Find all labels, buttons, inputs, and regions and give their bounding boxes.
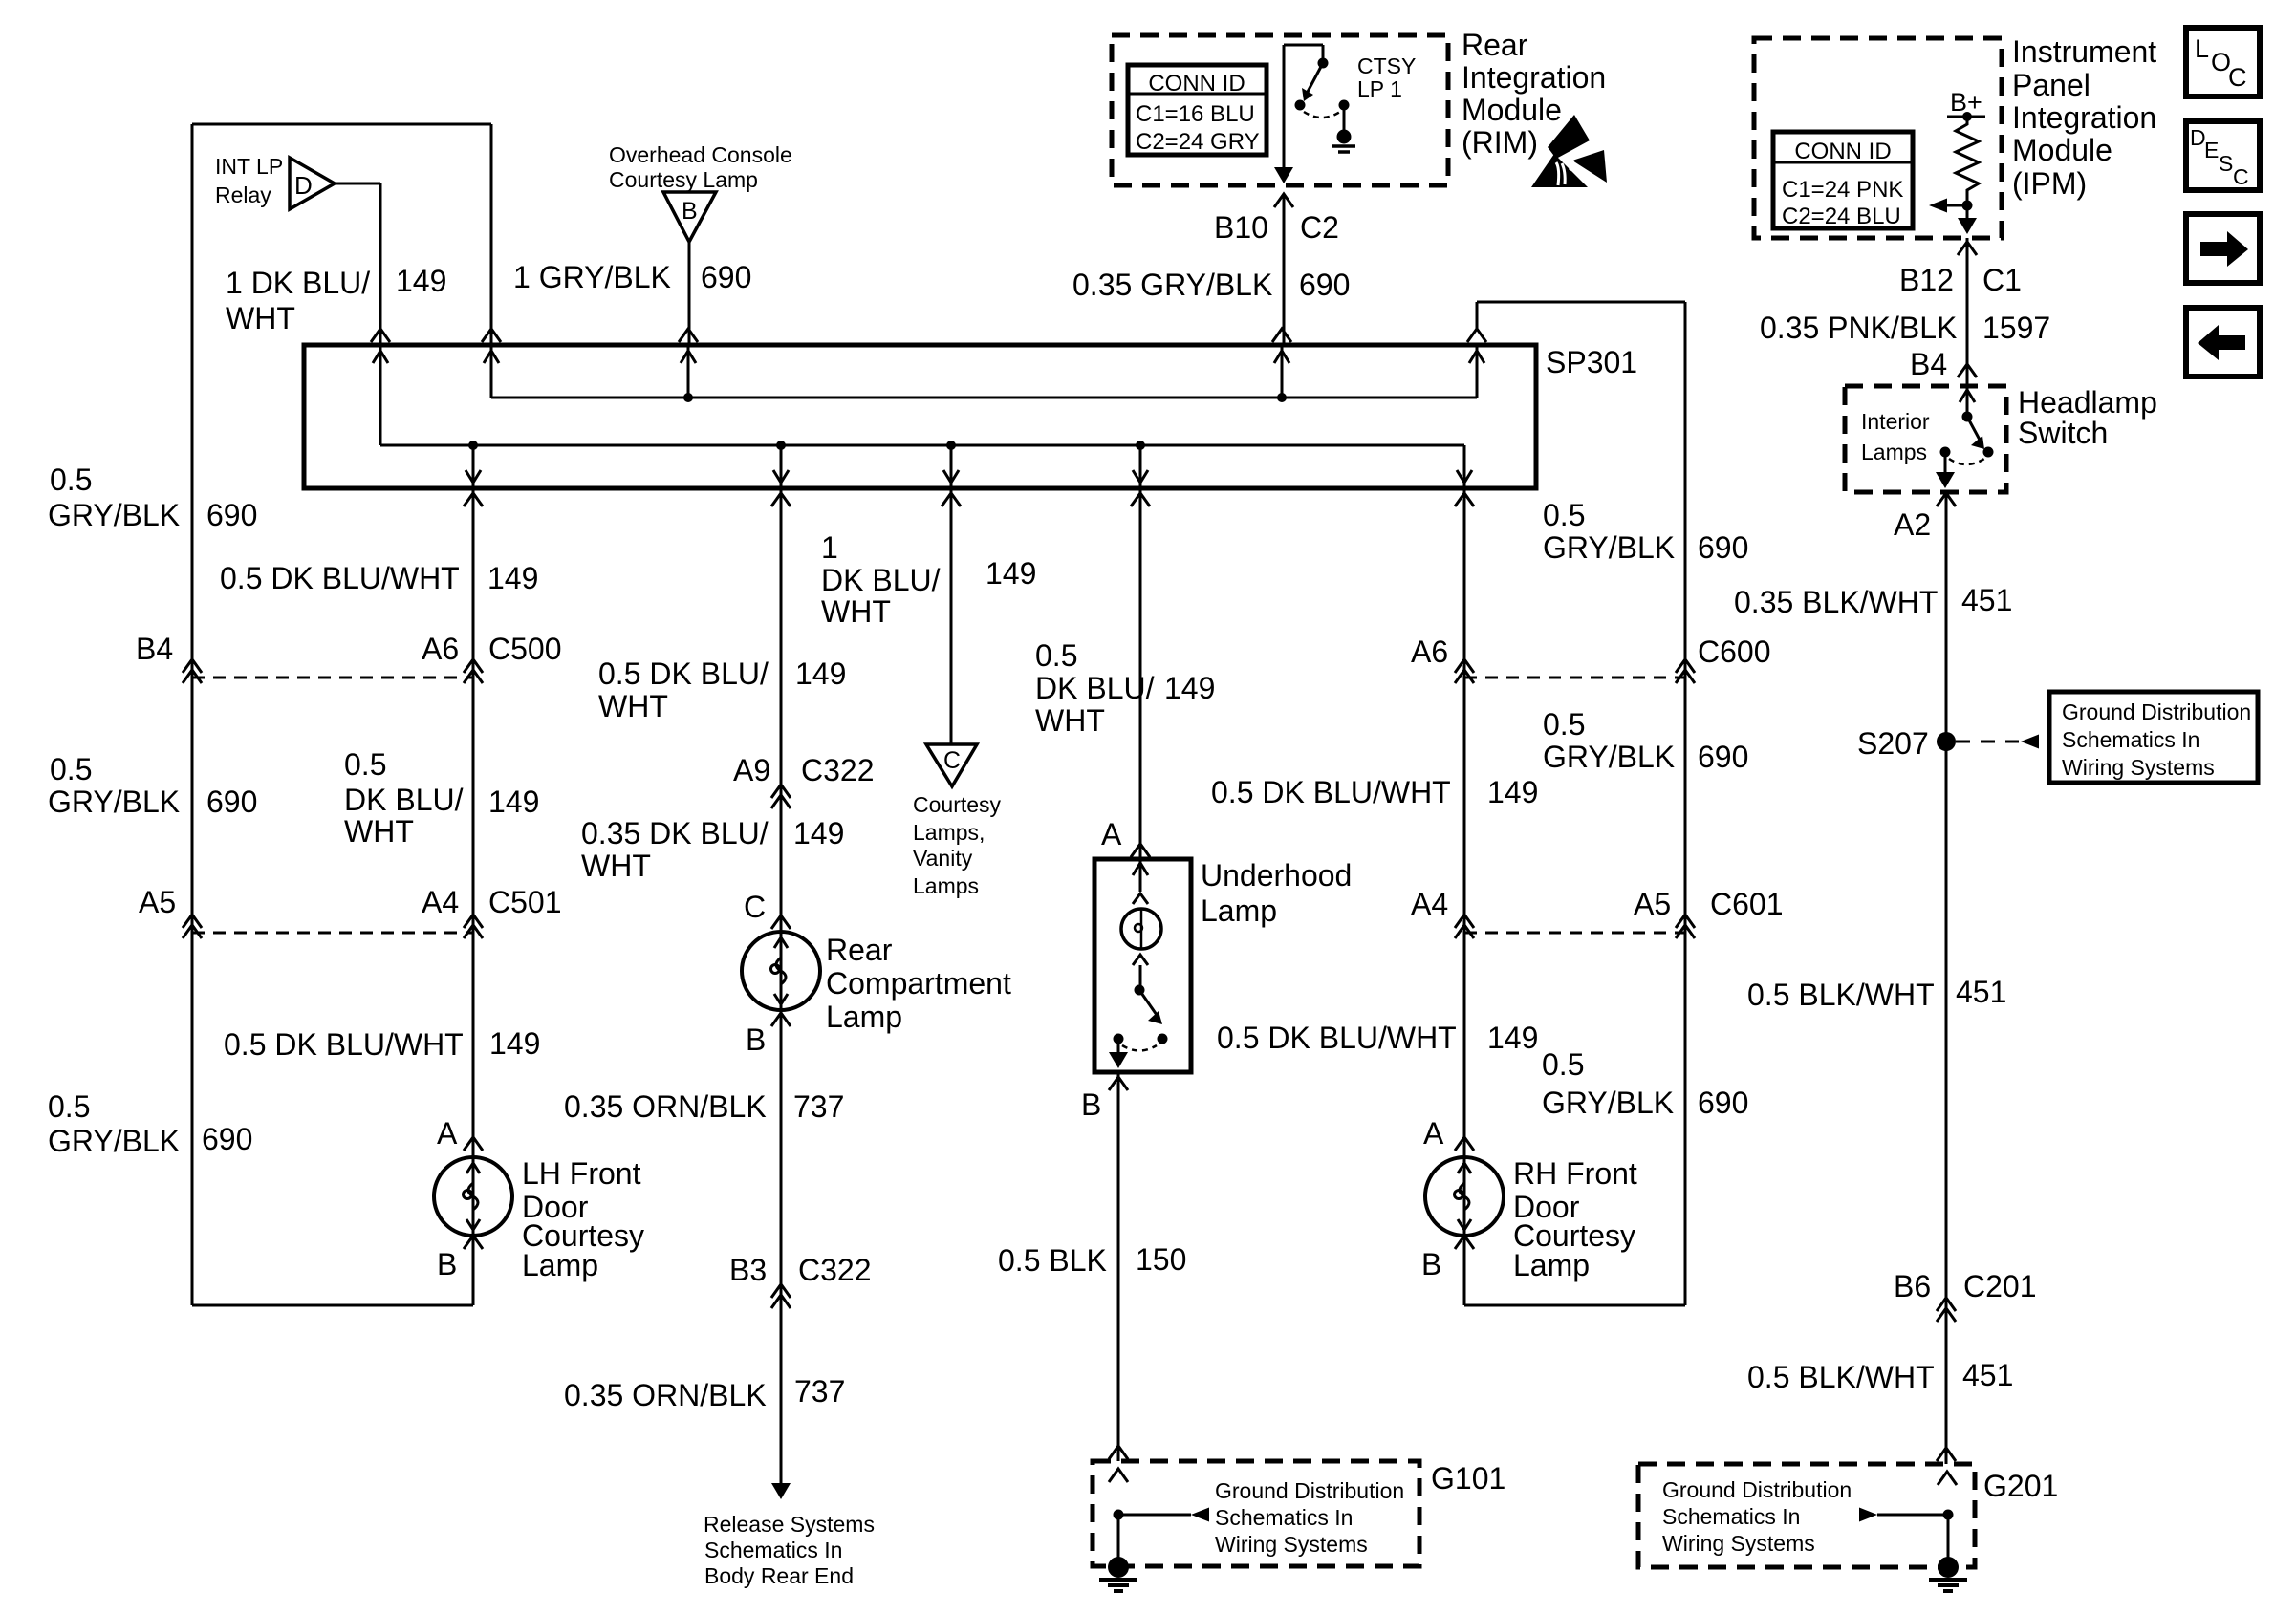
- svg-text:B12: B12: [1899, 263, 1954, 297]
- svg-text:GRY/BLK: GRY/BLK: [1543, 530, 1675, 565]
- svg-text:C500: C500: [488, 632, 562, 666]
- svg-text:0.35 ORN/BLK: 0.35 ORN/BLK: [564, 1378, 767, 1412]
- svg-text:0.5: 0.5: [1543, 498, 1585, 532]
- svg-text:Courtesy: Courtesy: [913, 792, 1002, 817]
- svg-text:RH Front: RH Front: [1513, 1156, 1637, 1191]
- svg-text:CONN ID: CONN ID: [1794, 139, 1891, 164]
- svg-text:690: 690: [701, 260, 751, 294]
- svg-text:B: B: [437, 1247, 457, 1281]
- svg-text:0.5 DK BLU/WHT: 0.5 DK BLU/WHT: [220, 561, 460, 595]
- svg-text:Wiring Systems: Wiring Systems: [2062, 755, 2215, 780]
- svg-text:Instrument: Instrument: [2012, 34, 2156, 69]
- svg-text:149: 149: [487, 561, 538, 595]
- svg-text:DK BLU/: DK BLU/: [1035, 671, 1155, 705]
- svg-text:C322: C322: [798, 1253, 872, 1287]
- svg-text:A: A: [437, 1116, 458, 1151]
- svg-text:Module: Module: [2012, 133, 2112, 167]
- svg-text:Panel: Panel: [2012, 68, 2090, 102]
- svg-text:0.35 DK BLU/: 0.35 DK BLU/: [581, 816, 769, 850]
- svg-text:A4: A4: [1411, 887, 1448, 921]
- svg-text:A6: A6: [422, 632, 459, 666]
- svg-text:WHT: WHT: [226, 301, 295, 335]
- svg-text:Lamp: Lamp: [826, 1000, 902, 1034]
- svg-text:A5: A5: [139, 885, 176, 919]
- svg-text:0.5 BLK: 0.5 BLK: [998, 1243, 1107, 1278]
- svg-text:D: D: [294, 171, 313, 200]
- svg-text:A: A: [1423, 1116, 1444, 1151]
- svg-text:Module: Module: [1462, 93, 1562, 127]
- svg-text:Integration: Integration: [1462, 60, 1606, 95]
- svg-text:WHT: WHT: [821, 594, 891, 629]
- svg-text:Ground Distribution: Ground Distribution: [1215, 1478, 1404, 1503]
- svg-text:1 GRY/BLK: 1 GRY/BLK: [513, 260, 671, 294]
- svg-text:451: 451: [1956, 975, 2006, 1009]
- svg-text:C2=24 BLU: C2=24 BLU: [1782, 204, 1901, 229]
- svg-text:Lamp: Lamp: [1513, 1248, 1590, 1282]
- svg-text:Schematics In: Schematics In: [1662, 1504, 1800, 1529]
- svg-text:Wiring Systems: Wiring Systems: [1662, 1531, 1815, 1556]
- svg-text:CTSY: CTSY: [1357, 54, 1416, 78]
- svg-text:690: 690: [206, 498, 257, 532]
- svg-text:Switch: Switch: [2018, 416, 2108, 450]
- svg-text:690: 690: [1698, 1086, 1748, 1120]
- svg-text:0.5 DK BLU/WHT: 0.5 DK BLU/WHT: [1211, 775, 1451, 809]
- svg-text:Schematics In: Schematics In: [1215, 1505, 1353, 1530]
- svg-text:C2: C2: [1300, 210, 1339, 245]
- svg-text:149: 149: [1487, 775, 1538, 809]
- svg-text:451: 451: [1962, 1358, 2013, 1392]
- svg-text:1 DK BLU/: 1 DK BLU/: [226, 266, 370, 300]
- svg-text:G201: G201: [1983, 1469, 2058, 1503]
- svg-text:Body Rear End: Body Rear End: [704, 1563, 854, 1588]
- svg-text:B6: B6: [1894, 1269, 1931, 1303]
- svg-text:CONN ID: CONN ID: [1148, 71, 1245, 97]
- svg-text:Schematics In: Schematics In: [2062, 727, 2199, 752]
- svg-text:LH Front: LH Front: [522, 1156, 641, 1191]
- svg-text:149: 149: [396, 264, 446, 298]
- svg-text:(IPM): (IPM): [2012, 166, 2087, 201]
- svg-text:149: 149: [489, 1026, 540, 1061]
- svg-text:A6: A6: [1411, 635, 1448, 669]
- svg-text:Overhead Console: Overhead Console: [609, 142, 792, 167]
- svg-text:Vanity: Vanity: [913, 846, 973, 871]
- svg-text:S: S: [2219, 151, 2233, 176]
- svg-text:B4: B4: [136, 632, 173, 666]
- svg-text:C600: C600: [1698, 635, 1771, 669]
- svg-text:149: 149: [986, 556, 1036, 591]
- svg-text:0.35 GRY/BLK: 0.35 GRY/BLK: [1072, 268, 1272, 302]
- svg-text:WHT: WHT: [581, 849, 651, 883]
- svg-text:S207: S207: [1857, 726, 1929, 761]
- svg-text:Rear: Rear: [826, 933, 893, 967]
- svg-text:A: A: [1101, 817, 1122, 851]
- svg-text:E: E: [2204, 138, 2219, 162]
- svg-text:Lamps,: Lamps,: [913, 820, 985, 845]
- svg-text:GRY/BLK: GRY/BLK: [48, 1124, 180, 1158]
- svg-text:0.5 BLK/WHT: 0.5 BLK/WHT: [1747, 1360, 1935, 1394]
- svg-text:690: 690: [202, 1122, 252, 1156]
- svg-text:A5: A5: [1634, 887, 1671, 921]
- svg-text:C1=16 BLU: C1=16 BLU: [1136, 101, 1255, 127]
- svg-text:B: B: [1081, 1087, 1101, 1122]
- svg-text:Underhood: Underhood: [1201, 858, 1352, 893]
- svg-text:Wiring Systems: Wiring Systems: [1215, 1532, 1368, 1557]
- svg-text:1: 1: [821, 530, 838, 565]
- svg-text:DK BLU/: DK BLU/: [344, 783, 464, 817]
- svg-text:690: 690: [1698, 530, 1748, 565]
- svg-text:737: 737: [794, 1374, 845, 1409]
- svg-text:Relay: Relay: [215, 183, 271, 207]
- svg-text:Interior: Interior: [1861, 409, 1930, 434]
- svg-text:737: 737: [793, 1089, 844, 1124]
- svg-text:(RIM): (RIM): [1462, 125, 1538, 160]
- svg-text:150: 150: [1136, 1242, 1186, 1277]
- svg-text:A9: A9: [733, 753, 770, 787]
- svg-text:690: 690: [1698, 740, 1748, 774]
- svg-text:B: B: [682, 198, 698, 225]
- svg-text:Headlamp: Headlamp: [2018, 385, 2157, 420]
- svg-text:Lamp: Lamp: [1201, 893, 1277, 928]
- svg-text:WHT: WHT: [1035, 703, 1105, 738]
- svg-text:C: C: [2228, 63, 2247, 92]
- svg-text:Courtesy Lamp: Courtesy Lamp: [609, 167, 758, 192]
- svg-text:149: 149: [488, 785, 539, 819]
- svg-text:0.5: 0.5: [48, 1089, 90, 1124]
- svg-text:Compartment: Compartment: [826, 966, 1011, 1001]
- svg-text:C: C: [943, 747, 961, 774]
- svg-text:0.35 BLK/WHT: 0.35 BLK/WHT: [1734, 585, 1938, 619]
- svg-text:C1: C1: [1982, 263, 2022, 297]
- svg-text:INT LP: INT LP: [215, 154, 283, 179]
- svg-text:0.5: 0.5: [50, 752, 92, 786]
- svg-text:0.5: 0.5: [1542, 1047, 1584, 1082]
- svg-text:SP301: SP301: [1546, 345, 1637, 379]
- svg-text:GRY/BLK: GRY/BLK: [48, 498, 180, 532]
- svg-text:Ground Distribution: Ground Distribution: [1662, 1477, 1852, 1502]
- svg-text:A2: A2: [1894, 507, 1931, 542]
- svg-text:149: 149: [1164, 671, 1215, 705]
- svg-text:L: L: [2195, 34, 2209, 63]
- svg-text:0.5 DK BLU/WHT: 0.5 DK BLU/WHT: [224, 1027, 464, 1062]
- svg-text:DK BLU/: DK BLU/: [821, 563, 941, 597]
- svg-text:0.5 DK BLU/WHT: 0.5 DK BLU/WHT: [1217, 1021, 1457, 1055]
- svg-text:GRY/BLK: GRY/BLK: [1542, 1086, 1674, 1120]
- svg-text:B4: B4: [1910, 347, 1947, 381]
- svg-text:C2=24 GRY: C2=24 GRY: [1136, 129, 1260, 155]
- svg-text:GRY/BLK: GRY/BLK: [48, 785, 180, 819]
- svg-text:B: B: [1421, 1247, 1441, 1281]
- svg-text:C501: C501: [488, 885, 562, 919]
- svg-text:WHT: WHT: [598, 689, 668, 723]
- svg-text:B10: B10: [1214, 210, 1268, 245]
- svg-text:G101: G101: [1431, 1461, 1505, 1496]
- svg-text:Schematics In: Schematics In: [704, 1538, 842, 1562]
- svg-text:C: C: [744, 890, 766, 924]
- svg-text:A4: A4: [422, 885, 459, 919]
- svg-text:149: 149: [793, 816, 844, 850]
- svg-text:149: 149: [795, 656, 846, 691]
- svg-text:0.5: 0.5: [50, 463, 92, 497]
- svg-text:C1=24 PNK: C1=24 PNK: [1782, 177, 1903, 203]
- svg-text:0.5: 0.5: [1035, 638, 1077, 673]
- svg-text:690: 690: [1299, 268, 1350, 302]
- svg-text:LP 1: LP 1: [1357, 76, 1402, 101]
- svg-text:C322: C322: [801, 753, 875, 787]
- svg-text:C201: C201: [1963, 1269, 2037, 1303]
- svg-text:B: B: [746, 1022, 766, 1057]
- svg-text:Integration: Integration: [2012, 100, 2156, 135]
- svg-text:0.35 PNK/BLK: 0.35 PNK/BLK: [1760, 311, 1957, 345]
- svg-text:0.35 ORN/BLK: 0.35 ORN/BLK: [564, 1089, 767, 1124]
- svg-text:0.5: 0.5: [344, 747, 386, 782]
- svg-text:WHT: WHT: [344, 814, 414, 849]
- svg-text:0.5 BLK/WHT: 0.5 BLK/WHT: [1747, 978, 1935, 1012]
- svg-text:0.5 DK BLU/: 0.5 DK BLU/: [598, 656, 769, 691]
- svg-text:149: 149: [1487, 1021, 1538, 1055]
- svg-text:Release Systems: Release Systems: [704, 1512, 875, 1537]
- svg-text:GRY/BLK: GRY/BLK: [1543, 740, 1675, 774]
- svg-text:0.5: 0.5: [1543, 707, 1585, 742]
- svg-text:Lamp: Lamp: [522, 1248, 598, 1282]
- svg-text:C601: C601: [1710, 887, 1784, 921]
- svg-text:690: 690: [206, 785, 257, 819]
- svg-text:Rear: Rear: [1462, 28, 1528, 62]
- svg-text:Lamps: Lamps: [1861, 440, 1927, 464]
- svg-text:B3: B3: [729, 1253, 767, 1287]
- svg-text:Ground Distribution: Ground Distribution: [2062, 699, 2251, 724]
- svg-text:C: C: [2233, 164, 2249, 189]
- svg-text:Lamps: Lamps: [913, 873, 979, 898]
- svg-text:1597: 1597: [1982, 311, 2050, 345]
- svg-text:451: 451: [1961, 583, 2012, 617]
